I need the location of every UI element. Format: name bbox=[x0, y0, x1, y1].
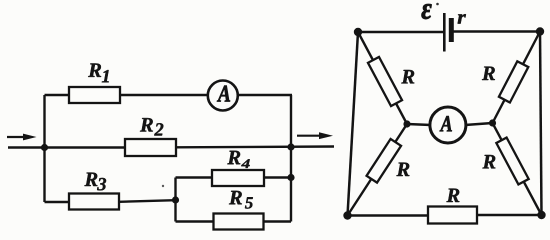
resistor R bottom-right arm bbox=[496, 138, 528, 185]
resistor R4 bbox=[212, 170, 264, 186]
node junction output bbox=[287, 143, 294, 150]
label R1 subscript bbox=[102, 70, 109, 82]
wire bridge top edge left bbox=[358, 31, 444, 33]
label R4 subscript bbox=[241, 159, 250, 168]
wire parallel section left vertical bbox=[174, 178, 176, 222]
output current arrow bbox=[297, 132, 333, 139]
wire diagonal bottom-right bbox=[493, 123, 542, 215]
wire left bus bbox=[43, 95, 45, 202]
input current arrow bbox=[7, 134, 37, 141]
label EMF epsilon bbox=[422, 4, 432, 19]
wire R1 to ammeter bbox=[120, 94, 209, 96]
label R1 bbox=[88, 63, 101, 76]
node bridge left bbox=[403, 120, 410, 127]
battery cell short plate bbox=[449, 18, 454, 42]
wire ammeter to right node bbox=[465, 123, 493, 125]
node corner bottom-right bbox=[537, 211, 545, 219]
node corner bottom-left bbox=[343, 211, 351, 219]
label R4 bbox=[227, 151, 240, 164]
resistor R top-right arm bbox=[499, 61, 528, 102]
ammeter A2 bbox=[430, 107, 466, 143]
wire R3 to parallel section bbox=[119, 200, 176, 202]
resistor R3 bbox=[69, 194, 119, 210]
node bridge right bbox=[489, 119, 496, 126]
wire bottom branch left bbox=[45, 201, 71, 203]
resistor R top-left arm bbox=[368, 57, 402, 106]
wire R4 branch left bbox=[176, 176, 214, 178]
label R bottom-left arm bbox=[396, 163, 409, 176]
label R bottom edge bbox=[446, 189, 459, 202]
wire ammeter to right bus bbox=[237, 94, 292, 96]
label R bottom-right arm bbox=[482, 155, 495, 168]
wire bridge left edge bbox=[348, 32, 359, 216]
node corner top-left bbox=[354, 28, 362, 36]
resistor R bottom edge bbox=[428, 207, 477, 224]
wire R4 branch right bbox=[264, 176, 292, 178]
wire diagonal top-left bbox=[358, 32, 407, 124]
stray mark after epsilon bbox=[436, 3, 439, 6]
wire bridge top edge right bbox=[451, 30, 540, 32]
wire right bus bbox=[290, 95, 292, 222]
node junction R3-parallel bbox=[172, 196, 179, 203]
label R top-left arm bbox=[401, 70, 414, 83]
wire R5 branch right bbox=[264, 220, 292, 222]
wire top branch left bbox=[45, 94, 71, 96]
label R2 bbox=[140, 118, 153, 131]
wire R5 branch left bbox=[176, 220, 215, 222]
wire bridge bottom edge right bbox=[477, 214, 542, 216]
battery cell long plate bbox=[443, 13, 446, 52]
label R5 subscript bbox=[245, 197, 253, 208]
node junction input bbox=[41, 144, 48, 151]
wire input main bbox=[8, 146, 125, 148]
label R top-right arm bbox=[482, 67, 495, 80]
wire left node to ammeter bbox=[407, 124, 431, 125]
label internal resistance r bbox=[458, 14, 466, 23]
label R3 subscript bbox=[97, 178, 106, 190]
wire bridge bottom edge left bbox=[348, 214, 430, 216]
resistor R bottom-left arm bbox=[367, 139, 401, 183]
wire R2 right to output bbox=[176, 145, 334, 148]
wire diagonal top-right bbox=[493, 32, 541, 124]
wire diagonal bottom-left bbox=[348, 124, 408, 216]
node corner top-right bbox=[536, 27, 544, 35]
ammeter A1 bbox=[208, 81, 238, 111]
wire bridge right edge bbox=[540, 32, 542, 216]
resistor R5 bbox=[214, 214, 264, 230]
node junction R4-bus bbox=[287, 174, 294, 181]
label R5 bbox=[229, 191, 242, 204]
resistor R2 bbox=[125, 139, 176, 156]
label R2 subscript bbox=[154, 123, 163, 135]
stray mark speck bbox=[162, 185, 164, 187]
label R3 bbox=[84, 173, 97, 186]
resistor R1 bbox=[69, 87, 120, 103]
